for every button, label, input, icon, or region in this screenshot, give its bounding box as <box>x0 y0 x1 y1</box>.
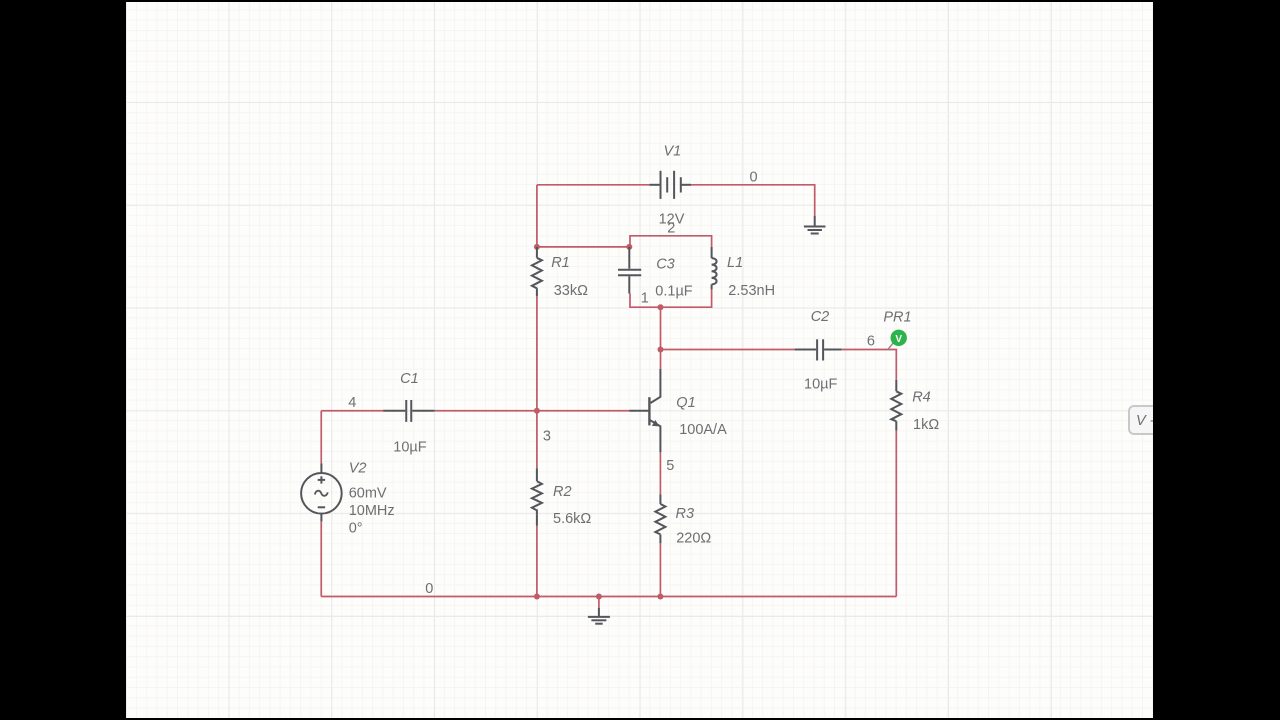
svg-text:V: V <box>895 334 902 345</box>
svg-text:2.53nH: 2.53nH <box>728 283 775 299</box>
svg-text:C3: C3 <box>656 257 675 273</box>
svg-text:PR1: PR1 <box>883 310 911 326</box>
svg-text:C1: C1 <box>400 371 419 387</box>
svg-text:0.1µF: 0.1µF <box>655 283 693 299</box>
svg-text:Q1: Q1 <box>676 395 695 411</box>
svg-text:1: 1 <box>641 291 649 307</box>
svg-text:R4: R4 <box>912 390 931 406</box>
svg-text:R3: R3 <box>676 506 695 522</box>
svg-text:R1: R1 <box>551 255 570 271</box>
svg-text:V2: V2 <box>349 461 367 477</box>
svg-text:100A/A: 100A/A <box>679 422 727 438</box>
svg-text:33kΩ: 33kΩ <box>554 283 588 299</box>
svg-text:10µF: 10µF <box>804 377 837 393</box>
svg-text:0: 0 <box>425 581 433 597</box>
svg-text:5.6kΩ: 5.6kΩ <box>553 511 591 527</box>
svg-text:6: 6 <box>867 333 875 349</box>
svg-text:60mV: 60mV <box>349 486 387 502</box>
svg-text:5: 5 <box>666 458 674 474</box>
svg-text:0: 0 <box>750 170 758 186</box>
svg-text:0°: 0° <box>349 521 363 537</box>
svg-text:C2: C2 <box>811 309 830 325</box>
svg-text:R2: R2 <box>553 484 572 500</box>
svg-text:4: 4 <box>348 395 356 411</box>
svg-text:2: 2 <box>667 221 675 237</box>
svg-text:V1: V1 <box>664 144 682 160</box>
svg-text:10µF: 10µF <box>393 439 426 455</box>
svg-text:1kΩ: 1kΩ <box>913 417 939 433</box>
svg-text:10MHz: 10MHz <box>349 503 395 519</box>
svg-text:220Ω: 220Ω <box>676 530 711 546</box>
svg-text:3: 3 <box>543 429 551 445</box>
svg-text:L1: L1 <box>727 255 743 271</box>
